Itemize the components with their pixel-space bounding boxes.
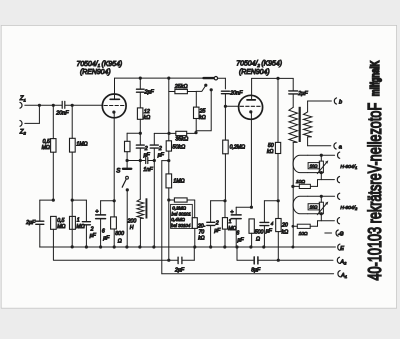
- svg-text:µF: µF: [90, 233, 97, 239]
- wire node to 2uF drop: [72, 199, 86, 201]
- svg-text:Ω: Ω: [256, 237, 260, 243]
- label tube V1 line2: [80, 69, 111, 76]
- resistor 0.5M R3 lower: [51, 216, 57, 260]
- resistor 20k: [276, 201, 281, 260]
- svg-text:A2: A2: [339, 260, 347, 266]
- junction R2 node: [71, 199, 74, 249]
- svg-text:1nF: 1nF: [143, 167, 153, 173]
- capacitor 1nF: [146, 158, 155, 164]
- label 500 Ω: [255, 230, 264, 243]
- capacitor 20nF input: [62, 101, 65, 108]
- label 200 H: [127, 219, 137, 232]
- wire Z2 to input node: [25, 105, 40, 123]
- svg-text:E: E: [340, 246, 344, 252]
- label 2uF primary: [297, 91, 308, 97]
- svg-text:70504/2 (K954): 70504/2 (K954): [236, 61, 282, 68]
- label 4 uF: [266, 221, 274, 235]
- label R1 0,5 MΩ: [42, 139, 50, 151]
- label H-904/1: [340, 164, 357, 170]
- terminal H-904/2 top: [338, 193, 340, 199]
- label 50 kΩ stage2: [267, 143, 274, 155]
- junction 35k node: [194, 131, 197, 134]
- svg-text:0,4MΩ: 0,4MΩ: [171, 217, 185, 222]
- junction node133: [139, 132, 142, 135]
- capacitor 2uF A2 bypass: [178, 247, 194, 264]
- capacitor 2uF third chain: [150, 133, 169, 247]
- tube V2 cathode: [249, 110, 252, 207]
- wire grid2: [225, 105, 238, 107]
- svg-text:35kΩ: 35kΩ: [175, 137, 188, 143]
- svg-text:20nF: 20nF: [55, 111, 69, 117]
- terminal H-904/1 top: [338, 152, 340, 158]
- svg-text:10Ω: 10Ω: [299, 231, 308, 237]
- resistor 0.2M grid2: [223, 106, 229, 201]
- svg-text:2µF: 2µF: [297, 91, 308, 97]
- svg-text:-G: -G: [338, 232, 344, 238]
- resistor 1M R4 lower: [70, 216, 76, 229]
- svg-text:70: 70: [199, 229, 205, 235]
- resistor 12k: [137, 108, 143, 133]
- svg-text:MΩ: MΩ: [228, 226, 236, 232]
- terminal Z2: [19, 121, 27, 136]
- capacitor 2uF grid2 bypass: [207, 201, 225, 247]
- resistor 1M R2 upper: [70, 105, 76, 247]
- svg-text:H-904/1: H-904/1: [340, 164, 357, 170]
- svg-text:A1: A1: [340, 273, 347, 279]
- svg-text:µF: µF: [103, 235, 110, 241]
- wire cathode2 to cap: [236, 206, 251, 208]
- terminal Z1: [19, 95, 26, 108]
- svg-text:10Ω: 10Ω: [310, 205, 319, 210]
- junction node200: [167, 198, 170, 201]
- label 1MΩ ladder: [173, 178, 184, 184]
- svg-text:µF: µF: [158, 152, 165, 158]
- svg-text:µF: µF: [266, 229, 273, 235]
- resistor above switch S1: [125, 133, 131, 168]
- svg-text:50: 50: [268, 143, 274, 149]
- terminal a: [334, 143, 342, 151]
- label H-904/2: [340, 205, 358, 211]
- label 2uF third: [158, 146, 165, 158]
- capacitor 2uF node133: [136, 133, 144, 160]
- junction E bus dots: [85, 245, 266, 248]
- label 50kΩ ladder: [172, 145, 185, 151]
- tube V2 envelope: [239, 95, 263, 119]
- svg-text:b: b: [339, 99, 342, 105]
- lamp block H-904/2: [293, 195, 335, 227]
- lamp block H-904/1: [293, 154, 335, 187]
- resistor 1M grid2: [222, 199, 227, 247]
- wire secondary to b: [308, 101, 332, 112]
- junction top wire: [139, 77, 171, 80]
- svg-text:MΩ: MΩ: [42, 145, 50, 151]
- label R3 0,5 MΩ: [57, 218, 65, 230]
- wire A2 right segment: [237, 247, 253, 260]
- label 1nF: [143, 167, 153, 173]
- tube V1 envelope: [102, 94, 126, 118]
- wire A1 rail: [162, 273, 334, 275]
- terminal A2: [337, 257, 347, 266]
- wire node133 left: [127, 132, 140, 134]
- label 2uF anode1: [144, 90, 155, 96]
- svg-text:20nF: 20nF: [229, 90, 243, 96]
- resistor 35k: [169, 131, 196, 135]
- resistor 0.2/0.4M horizontal: [169, 198, 195, 218]
- terminal -G: [325, 230, 344, 238]
- junction A2 20k tap: [277, 259, 280, 262]
- title Fotozellen-Verstaerker 30101-04: [366, 103, 386, 281]
- svg-text:40-10103 rekrätsreV-nellezotoF: 40-10103 rekrätsreV-nellezotoF: [366, 103, 386, 281]
- label 1 MΩ grid2: [228, 219, 236, 232]
- svg-text:1MΩ: 1MΩ: [76, 142, 87, 148]
- title Klangfilm: [369, 60, 382, 96]
- label S: [116, 167, 121, 174]
- svg-text:10Ω: 10Ω: [310, 163, 319, 168]
- resistor 50k ladder: [166, 141, 171, 174]
- annotation box 0,2MΩ bei 30101: [171, 204, 193, 228]
- svg-text:Ω: Ω: [118, 238, 122, 244]
- svg-text:mlifgnalK: mlifgnalK: [369, 60, 382, 96]
- junction node200 stage2: [277, 199, 280, 202]
- terminal b: [334, 98, 342, 106]
- terminal E: [338, 244, 344, 252]
- label 20 kΩ: [281, 222, 288, 235]
- transformer T1 primary: [289, 107, 298, 142]
- svg-text:50kΩ: 50kΩ: [172, 145, 185, 151]
- svg-text:bei 30104: bei 30104: [171, 223, 191, 228]
- svg-text:25: 25: [199, 109, 206, 115]
- resistor 20-70k: [192, 218, 197, 247]
- capacitor 8uF A2 bypass: [254, 257, 333, 264]
- svg-text:10Ω: 10Ω: [296, 179, 305, 185]
- switch S2 pivot: [214, 77, 217, 80]
- terminal H-904/1 bottom: [337, 177, 339, 183]
- svg-text:kΩ: kΩ: [199, 115, 206, 121]
- svg-text:8µF: 8µF: [251, 268, 261, 274]
- label 20nF coupling: [229, 90, 243, 96]
- resistor 800: [111, 201, 117, 247]
- svg-text:µF: µF: [237, 238, 244, 244]
- wire anode2 top: [252, 77, 294, 79]
- label 10Ω return 2: [299, 231, 308, 237]
- capacitor 6uF electrolytic 1: [96, 201, 106, 247]
- svg-text:µF: µF: [144, 152, 151, 158]
- junction right bus: [291, 185, 294, 249]
- label 8uF: [251, 268, 261, 274]
- junction node160b: [167, 159, 170, 162]
- svg-text:0,2MΩ: 0,2MΩ: [172, 206, 186, 211]
- label tube V1 line1: [77, 61, 123, 68]
- svg-text:25kΩ: 25kΩ: [174, 84, 188, 90]
- junction cathode2: [250, 206, 253, 209]
- capacitor 2uF anode1: [137, 78, 145, 108]
- switch S1 contact bar: [123, 168, 131, 170]
- svg-text:a: a: [339, 144, 342, 150]
- svg-text:0,2MΩ: 0,2MΩ: [230, 144, 246, 150]
- svg-text:0,5: 0,5: [57, 218, 64, 224]
- svg-text:kΩ: kΩ: [267, 149, 274, 155]
- switch S2 lever: [204, 77, 214, 79]
- svg-text:2µF: 2µF: [144, 90, 155, 96]
- junction grid2 node: [224, 105, 227, 108]
- label 800 Ω: [115, 231, 124, 244]
- svg-text:MΩ: MΩ: [57, 224, 65, 230]
- wire A1 riser: [162, 161, 169, 274]
- wire E bus: [40, 246, 336, 248]
- wire pivot to grid cap: [218, 78, 226, 89]
- svg-text:1MΩ: 1MΩ: [173, 178, 184, 184]
- svg-text:2: 2: [215, 220, 219, 226]
- switch S1 pivot: [126, 176, 129, 179]
- junction ladder: [167, 132, 170, 135]
- label 25 kΩ v: [199, 109, 206, 121]
- svg-text:12: 12: [144, 109, 150, 115]
- wire right bus: [292, 142, 294, 247]
- svg-text:1: 1: [77, 218, 80, 224]
- inductor 200H: [137, 161, 147, 248]
- capacitor 6uF electrolytic 2: [231, 207, 241, 247]
- terminal A1: [338, 271, 347, 280]
- label tube V2 line1: [236, 61, 282, 68]
- resistor 50k stage2: [275, 78, 280, 200]
- label + 6uF 2: [230, 210, 244, 244]
- capacitor 20nF coupling: [221, 91, 229, 106]
- svg-text:+: +: [95, 209, 98, 215]
- label 2uF second: [90, 227, 97, 239]
- svg-text:kΩ: kΩ: [282, 229, 289, 235]
- capacitor 2uF bottom-left: [36, 200, 44, 247]
- svg-text:bei 30101: bei 30101: [172, 211, 192, 216]
- tube V1 cathode: [112, 111, 115, 201]
- tube V1 anode: [110, 78, 119, 99]
- label 35kΩ: [175, 137, 188, 143]
- junction anode2: [276, 77, 279, 80]
- svg-text:H: H: [130, 225, 134, 231]
- label 0,2MΩ: [230, 144, 246, 150]
- svg-text:+: +: [230, 210, 233, 216]
- svg-text:200: 200: [127, 219, 137, 225]
- capacitor 2uF primary: [289, 78, 298, 107]
- svg-text:µF: µF: [214, 228, 221, 234]
- transformer T1 secondary: [303, 112, 311, 137]
- label + 6uF 1: [95, 209, 110, 242]
- wire input line: [25, 104, 103, 106]
- svg-text:kΩ: kΩ: [144, 115, 151, 121]
- svg-text:70504/1 (K954): 70504/1 (K954): [77, 61, 123, 68]
- wire A2 left segment: [53, 259, 177, 261]
- junction A2 1M tap: [167, 259, 170, 262]
- tube V1 grid: [104, 105, 125, 107]
- svg-text:MΩ: MΩ: [76, 224, 84, 230]
- label R4 1 MΩ: [76, 218, 84, 230]
- label R2 1MΩ: [76, 142, 87, 148]
- wire node160: [127, 160, 145, 162]
- switch S1 lever: [122, 179, 126, 187]
- resistor 0.5M R1 upper: [51, 105, 56, 200]
- svg-text:6: 6: [102, 228, 105, 234]
- label 2uF bottom-left: [25, 220, 36, 226]
- label 2uF grid2: [214, 220, 221, 234]
- svg-text:800: 800: [115, 231, 124, 237]
- svg-text:2: 2: [90, 227, 94, 233]
- svg-text:(REN904): (REN904): [80, 69, 111, 76]
- capacitor 2uF second: [82, 200, 90, 247]
- terminal H-904/2 bottom: [337, 218, 339, 224]
- junction input nodes: [38, 104, 74, 107]
- resistor 10 ohm return 1: [291, 184, 317, 188]
- svg-text:2µF: 2µF: [25, 220, 36, 226]
- svg-text:6: 6: [236, 231, 239, 237]
- switch S1 moving contact: [126, 188, 129, 247]
- svg-text:(REN904): (REN904): [239, 69, 270, 76]
- label 25kΩ: [174, 84, 188, 90]
- label 2uF node133: [144, 146, 151, 158]
- label 10Ω return 1: [296, 179, 305, 185]
- resistor 1M ladder: [166, 174, 172, 260]
- wire ladder vertical: [168, 78, 170, 141]
- capacitor 4uF: [260, 201, 278, 247]
- label 2uF A2: [174, 267, 185, 273]
- wire cathode1 bias node left: [40, 199, 55, 202]
- switch S2 contact B: [196, 88, 213, 131]
- tube V2 anode: [247, 78, 255, 100]
- switch S2 contact A: [196, 84, 207, 92]
- svg-text:2µF: 2µF: [174, 267, 185, 273]
- wire cathode1 to cap: [101, 200, 115, 202]
- tube V2 grid: [240, 105, 261, 107]
- transformer T1 core: [299, 107, 301, 142]
- junction cathode1: [113, 199, 116, 202]
- label 12 kΩ: [144, 109, 151, 121]
- label 20-70 kΩ: [197, 223, 206, 241]
- svg-text:500: 500: [255, 230, 264, 236]
- svg-text:2: 2: [158, 146, 162, 152]
- label tube V2 line2: [239, 69, 270, 76]
- svg-text:2: 2: [144, 146, 148, 152]
- svg-text:20: 20: [281, 222, 288, 228]
- wire anode1 top: [115, 77, 205, 79]
- svg-text:kΩ: kΩ: [198, 236, 205, 242]
- svg-text:1: 1: [229, 219, 232, 225]
- label 20nF: [55, 111, 69, 117]
- resistor 25k horizontal: [169, 89, 197, 93]
- junction node160: [126, 159, 156, 162]
- resistor 25k vertical: [194, 92, 200, 134]
- wire secondary to a: [308, 137, 331, 146]
- resistor 10 ohm return 2: [293, 224, 318, 228]
- resistor 500: [249, 219, 254, 247]
